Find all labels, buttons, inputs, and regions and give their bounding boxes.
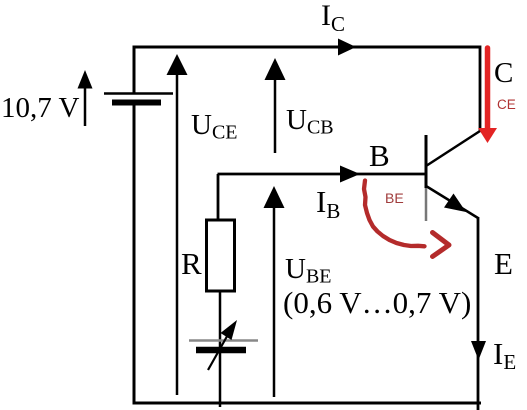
transistor Q1 base bar gray [425, 188, 428, 221]
red CE arrow [485, 48, 491, 129]
transistor Q1 emitter arrowhead [444, 194, 466, 213]
arrow IB on base wire [340, 166, 360, 183]
resistor R body [207, 220, 235, 291]
svg-text:CE: CE [497, 97, 516, 112]
arrow battery voltage [84, 88, 87, 126]
battery B1 long plate [104, 92, 173, 95]
svg-text:C: C [494, 57, 513, 89]
wire top horizontal [133, 46, 480, 49]
arrow UCB [274, 79, 277, 153]
wire collector vertical [479, 46, 482, 133]
wire base horizontal [218, 173, 427, 176]
wire left vertical lower [134, 106, 481, 404]
svg-text:10,7 V: 10,7 V [1, 92, 79, 124]
variable source thick plate [196, 347, 246, 354]
svg-text:BE: BE [385, 190, 404, 206]
wire resistor branch lower [219, 291, 222, 407]
variable source gray plate [189, 339, 258, 342]
transistor Q1 emitter lead [426, 186, 478, 218]
transistor Q1 base bar black [425, 135, 428, 188]
arrow UBE [273, 206, 276, 397]
battery B1 thick plate [112, 100, 161, 106]
svg-text:E: E [494, 246, 513, 281]
arrow UCE [176, 73, 179, 395]
arrow IC on top wire [338, 39, 356, 56]
red BE loop arrow [364, 181, 425, 247]
svg-text:(0,6 V…0,7 V): (0,6 V…0,7 V) [283, 285, 471, 320]
transistor Q1 collector lead [426, 131, 480, 166]
svg-text:B: B [369, 138, 390, 173]
wire resistor branch upper [217, 174, 220, 220]
wire left vertical upper [133, 46, 136, 94]
wire emitter vertical [477, 217, 480, 410]
svg-text:R: R [181, 246, 202, 281]
arrow IE on emitter wire [471, 341, 486, 360]
variable source adjust arrow [208, 331, 230, 370]
